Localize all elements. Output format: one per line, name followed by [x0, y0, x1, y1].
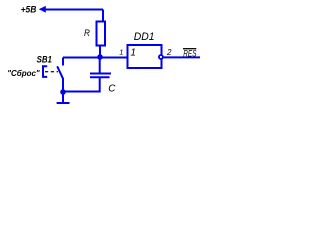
resistor R: [97, 22, 106, 46]
node junction resistor/cap: [97, 54, 103, 60]
svg-text:RES: RES: [183, 49, 196, 59]
power arrow +5V: [39, 6, 46, 13]
wire main horizontal node: [63, 57, 127, 59]
svg-text:DD1: DD1: [134, 31, 155, 43]
switch link dashed: [45, 71, 58, 73]
wire switch bottom lead: [62, 79, 64, 103]
node junction switch/ground: [60, 89, 66, 95]
capacitor C bottom plate: [90, 76, 110, 78]
overline RES: [183, 48, 196, 50]
svg-text:C: C: [108, 84, 116, 95]
wire output pin 2: [164, 56, 201, 58]
wire resistor bottom lead: [99, 46, 101, 58]
svg-text:R: R: [84, 28, 90, 38]
switch SB1 blade: [57, 66, 63, 79]
wire switch top drop: [62, 58, 64, 66]
logic inverter DD1 body: [128, 45, 162, 68]
wire top rail +5V: [44, 9, 103, 11]
wire bottom horizontal: [63, 91, 100, 93]
svg-text:1: 1: [119, 47, 123, 56]
inverter output bubble: [159, 55, 163, 59]
wire top drop to resistor: [102, 10, 104, 22]
switch SB1 button actuator: [43, 66, 47, 77]
svg-text:SB1: SB1: [37, 54, 52, 64]
svg-text:1: 1: [130, 47, 136, 58]
svg-text:2: 2: [166, 48, 172, 57]
svg-text:+5В: +5В: [21, 4, 37, 14]
svg-text:"Сброс": "Сброс": [7, 68, 40, 78]
wire capacitor bottom lead: [99, 78, 101, 93]
wire capacitor top lead: [99, 57, 101, 73]
capacitor C top plate: [90, 73, 111, 75]
ground bar: [57, 102, 70, 104]
